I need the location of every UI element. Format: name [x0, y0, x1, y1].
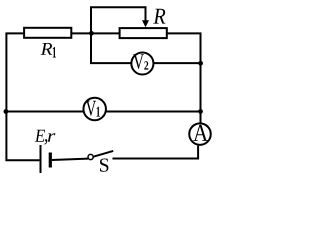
battery long plate (E,r) [40, 145, 42, 173]
junction node: left vertical meets V1 wire [4, 109, 9, 114]
label V1 : subscript 1 [97, 107, 100, 117]
label E,r : letter E [35, 130, 45, 142]
wire: junction up + top wiper run + arrow stem [91, 7, 146, 33]
ammeter A bezel [189, 123, 211, 145]
voltmeter V1 bezel [83, 98, 106, 121]
label V1 : letter V [86, 101, 96, 116]
label E,r : comma [45, 139, 48, 145]
junction node: right vertical meets V2 wire [198, 61, 203, 66]
wire: battery to switch pivot [52, 159, 88, 160]
wire: V2 right terminal to right vertical [153, 62, 200, 64]
wire: rheostat right terminal + right vertical down to ammeter [167, 33, 201, 122]
label A [193, 125, 208, 141]
junction node: right vertical meets V1 wire [198, 109, 203, 114]
wire: junction down + run right to voltmeter V2 [91, 33, 132, 63]
wire: top-left corner + left vertical + bottom-left run to battery [6, 33, 39, 160]
label S [100, 158, 108, 171]
switch S lever [93, 151, 113, 157]
wire: V1 right terminal to right vertical [105, 111, 200, 113]
label R1 : letter R [41, 43, 53, 55]
voltmeter V2 bezel [131, 52, 153, 74]
label R [153, 9, 165, 24]
wire: V1 branch from left vertical [6, 111, 84, 113]
label V2 : letter V [133, 54, 144, 69]
rheostat wiper arrowhead [142, 20, 149, 27]
battery short plate (E,r) [49, 153, 52, 168]
wire: ammeter bottom stub + bottom-right corner run to switch [113, 146, 199, 159]
label V2 : subscript 2 [144, 61, 148, 69]
resistor R1 body [24, 28, 71, 38]
wire: junction node to rheostat R left terminal [91, 32, 119, 34]
label R1 : subscript 1 [53, 47, 56, 58]
switch S pivot contact [88, 154, 93, 159]
junction node: R1 / rheostat / wiper / V2 branch [89, 31, 94, 36]
label E,r : letter r [48, 133, 56, 142]
rheostat R body [120, 28, 167, 38]
wire: R1 right terminal to junction node [71, 32, 91, 34]
